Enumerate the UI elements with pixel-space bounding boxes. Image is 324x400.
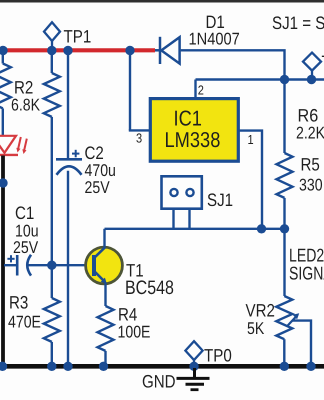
svg-text:LM338: LM338 [165,128,221,152]
wire: R-left to LED anode [2,108,4,135]
test point TP1 diamond [44,22,60,50]
wire: IC pin 1 adjust [238,131,262,229]
wire: VR2 bottom to ground [283,339,285,366]
wire: C1 to base node [29,264,93,266]
svg-text:VR2: VR2 [246,301,275,321]
wire: IC pin 2 riser [194,80,196,100]
T1 emitter arrowhead [101,278,107,284]
node C: junction dot C2 branch [63,46,72,55]
node P: bus dot VR2 [280,362,289,371]
wire: IC input horizontal to pin 3 [129,129,150,131]
SJ1 pin circle A [170,189,177,196]
svg-text:R5: R5 [301,155,320,175]
transistor T1 circle [86,247,123,284]
wire: collector riser [103,229,105,248]
svg-text:470E: 470E [8,313,41,332]
svg-text:R4: R4 [118,305,137,325]
svg-text:BC548: BC548 [125,277,174,299]
wire: TP1 node down to R2 middle [51,52,53,73]
VR2 wiper arrow [287,315,298,327]
svg-text:C2: C2 [85,143,104,163]
svg-text:6.8K: 6.8K [11,96,41,115]
node D: junction dot IC input branch [125,46,134,55]
wire: SJ1 stub B [188,209,190,229]
wire: R5 branch upper [283,80,285,154]
svg-text:1N4007: 1N4007 [189,30,240,49]
potentiometer VR2 zigzag [276,296,292,339]
node J: junction dot base node [47,261,56,270]
LED1 arrowheads [16,148,20,153]
node Q: bus dot wiper leg [306,362,315,371]
wire: VR2 branch upper [283,229,285,296]
T1 emitter diagonal [95,272,105,282]
svg-text:TP0: TP0 [204,346,232,366]
node L: bus dot R3 [47,362,56,371]
node I: junction dot adjust rail / VR2 [280,224,289,233]
wire: SJ1 stub A [172,209,174,229]
capacitor C1 [4,255,31,276]
wire: red positive input bus [0,48,155,52]
svg-text:GND: GND [142,372,176,392]
svg-text:5K: 5K [247,319,265,338]
svg-text:SJ1: SJ1 [207,190,233,210]
top border line [0,0,324,3]
wire: regulated output rail [196,78,324,80]
node K: bus dot left edge [0,362,7,371]
ground bus [0,364,324,369]
diode D1 [155,37,180,64]
svg-text:25V: 25V [85,178,111,197]
ground symbol [177,368,210,390]
node M: bus dot C2 [63,362,72,371]
wire: R4 to ground bus [104,351,106,366]
svg-text:C1: C1 [15,203,34,223]
wire: VR2 wiper to right down leg [293,321,312,366]
node E: junction dot on black wire [0,178,8,187]
svg-text:SJ1 = SHO: SJ1 = SHO [272,13,324,33]
wire: black cathode wire down left edge [1,156,5,367]
wire: R3 to ground bus [51,342,53,366]
resistor VR1 (middle zigzag under TP1) [44,73,60,117]
wire: left branch to R-left [2,52,4,64]
svg-text:1: 1 [248,132,254,147]
capacitor C2 [56,150,82,175]
wire: IC input branch vertical [129,52,131,130]
node F: junction dot output rail / R5 [280,75,289,84]
T1 collector diagonal [95,247,105,257]
wire: middle branch down to C1 node [51,117,53,298]
svg-text:IC1: IC1 [174,106,202,130]
node G: junction dot output rail / TP diamond [307,75,316,84]
svg-text:2.2K: 2.2K [296,124,324,143]
connector SJ1 box [162,176,202,208]
svg-text:R3: R3 [9,293,28,313]
resistor R5 [277,153,293,198]
wire: emitter to R4 [104,283,106,306]
wire: diode anode to output corner [181,50,285,79]
svg-text:R2: R2 [14,78,33,98]
wire: C2 branch vertical upper [67,52,69,160]
svg-text:3: 3 [136,131,142,146]
svg-text:100E: 100E [118,323,151,342]
node H: junction dot adjust rail [257,224,266,233]
node A: junction dot left edge on red bus [0,46,8,55]
resistor R2 (left zigzag, partially cropped) [0,64,11,109]
LED1 red symbol (cropped at left) [0,136,27,155]
svg-text:SIGNAL: SIGNAL [289,263,324,284]
node N: bus dot R4 [99,362,108,371]
op-amp region: IC1 LM338 regulator box [150,99,238,162]
wire: C2 to ground bus [67,171,69,366]
wire: adjust rail horizontal [105,228,285,230]
resistor R4 [98,306,114,351]
wire: R5 lower to adjust rail [283,198,285,229]
test point diamond top right [303,53,321,78]
svg-text:R6: R6 [298,106,319,126]
resistor R3 [44,298,60,342]
T1 base bar [92,255,96,276]
svg-text:25V: 25V [13,238,39,257]
svg-text:TP1: TP1 [64,27,92,47]
svg-text:2: 2 [198,83,204,98]
node O: bus dot TP0 [189,362,198,371]
node B: junction dot under TP1 [47,46,56,55]
svg-text:330: 330 [299,176,323,195]
SJ1 pin circle B [186,189,193,196]
test point TP0 diamond [185,341,202,366]
